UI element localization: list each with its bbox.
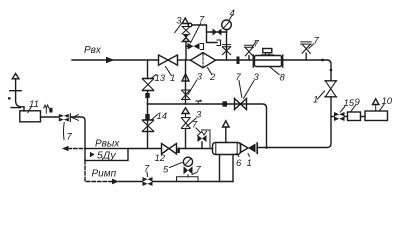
wire connector between 9 and 10 (361, 116, 366, 118)
dashed outlet arrow (68, 148, 85, 150)
open triangle below on vent column (183, 38, 190, 42)
valve 7 with handle above main line (after meter) (301, 42, 312, 44)
svg-text:7: 7 (314, 36, 320, 47)
svg-text:3: 3 (176, 16, 182, 27)
device 11 box (20, 111, 41, 122)
wire branch column below valve13 (147, 91, 149, 149)
valve 14 (vertical gate valve lower) (143, 120, 154, 132)
flange block before flow meter (237, 57, 240, 65)
impulse arrow (filled) (112, 179, 119, 185)
small mark left of stack (8, 97, 11, 99)
leader for label 7 line2 (239, 81, 242, 98)
svg-text:3: 3 (197, 72, 203, 83)
label 9 leader (351, 106, 356, 112)
left instrument stack vent triangle (12, 74, 19, 79)
svg-text:Римп: Римп (92, 169, 117, 180)
wire main line valve1-to-filter (178, 59, 191, 61)
node junction dot outlet/line2 (265, 146, 268, 149)
svg-text:1: 1 (247, 158, 252, 169)
svg-text:6: 6 (236, 158, 242, 169)
valve 15 (black) (334, 112, 345, 121)
leader for label 7 PSK (196, 128, 201, 133)
svg-text:7: 7 (144, 164, 150, 175)
wire right column continues (259, 97, 332, 148)
device 9 rectangle (348, 112, 361, 121)
svg-text:12: 12 (155, 153, 166, 164)
svg-text:5Ду: 5Ду (97, 150, 116, 162)
label 7 leader (after meter) (309, 44, 314, 49)
svg-text:15: 15 (344, 98, 355, 109)
node junction dot on main line near corner (321, 59, 323, 61)
svg-text:9: 9 (355, 97, 361, 108)
manometer 5 gauge (183, 157, 192, 166)
label 2 leader (208, 68, 212, 75)
svg-text:3: 3 (254, 72, 260, 83)
flow meter 8 body (255, 56, 282, 67)
svg-text:7: 7 (196, 165, 202, 176)
manometer 5 cock (black) (184, 166, 193, 174)
valve (manometer cock black) on line y=32 (213, 29, 222, 36)
regulator 6 vessel (213, 143, 241, 155)
wire instrument stack (16, 79, 24, 111)
wire vent column above main line at x=186 (185, 42, 187, 61)
valve on line2 (blowdown valve) (235, 99, 247, 110)
valve on line3 vent column (182, 118, 191, 129)
gauge stem (226, 30, 228, 32)
leader for label 3 (188, 80, 197, 95)
svg-text:10: 10 (382, 96, 393, 107)
device 10 rectangle (365, 111, 388, 121)
pressure gauge 4 (222, 20, 232, 30)
label 10 leader (379, 105, 384, 112)
wire main inlet line (72, 59, 159, 61)
label 6 leader (237, 154, 240, 157)
wire branch to KIP devices y=116.5 (331, 116, 334, 118)
flange bar after valve (69, 114, 71, 122)
label 1 leader (regulator valve) (248, 154, 250, 157)
arrow glyph in 5Du box (90, 152, 95, 157)
valve 7 (manometer cock, black) on bypass (188, 43, 200, 50)
valve 12 (162, 144, 177, 155)
wire line2 (blowdown header) (148, 104, 267, 148)
wire outlet line3 from valve12 to regulator (180, 148, 213, 150)
label 4 leader (230, 16, 232, 20)
svg-text:13: 13 (155, 73, 166, 84)
valve bowtie on lower vent column (182, 90, 191, 100)
label 12 leader (164, 150, 167, 153)
relief valve PSK with frame (202, 130, 211, 149)
wire vent column below main line x=185.5 (185, 60, 187, 104)
flow arrow (open, left) on device11 line (72, 115, 79, 121)
wire impulse risers to regulator (220, 155, 234, 182)
svg-text:1: 1 (313, 95, 318, 106)
label 7 leader (device11 valve) (62, 123, 65, 140)
leader for label 7 top (191, 24, 201, 44)
valve 13 (vertical gate valve on branch) (143, 79, 154, 91)
node junction dot on right column (330, 69, 333, 72)
flange tick upper (10, 90, 21, 92)
leader for label 3 line3 (187, 118, 197, 127)
wire vent column between valve12 and regulator x=185.5 (185, 129, 187, 149)
svg-text:3: 3 (196, 110, 202, 121)
valve 7 (black) on impulse line (143, 177, 153, 186)
dashed impulse line (85, 161, 112, 182)
svg-text:7: 7 (254, 39, 260, 50)
valve 1 (main inlet gate valve) (159, 55, 178, 65)
open triangle (vent) on lower column (182, 74, 189, 81)
impulse tap bracket under manometer (177, 177, 199, 181)
flow meter right cap (282, 55, 284, 67)
5Du box (85, 149, 128, 161)
flange block after valve 12 (177, 148, 180, 153)
regulator outlet valve (cock with hatched half) (241, 144, 249, 153)
flange block on column (lower) (145, 114, 149, 120)
label 14 leader (151, 115, 158, 121)
flow arrow on inlet line (106, 57, 115, 63)
label 5 leader (170, 163, 183, 168)
wire gauge column down to main line (226, 32, 228, 60)
flow meter top connector (263, 49, 272, 53)
sample tap mark on line2 (196, 101, 201, 104)
vent stack triangle (open, up) (182, 18, 188, 24)
node small circle right of vent stack (188, 23, 192, 27)
flow meter left cap (252, 55, 254, 67)
wire manometer line y=32 (207, 31, 227, 33)
flange tick lower (11, 107, 20, 109)
wire from circle to gauge impulse line (192, 25, 217, 43)
svg-text:4: 4 (230, 8, 235, 19)
gauge connection fitting right of cock (201, 44, 204, 50)
svg-text:Рвх: Рвх (84, 45, 102, 56)
svg-text:8: 8 (280, 73, 286, 84)
vent triangle on device 10 (373, 99, 379, 105)
wire line3 from box to valve12 (128, 148, 162, 150)
label 8 leader (270, 67, 279, 75)
wire main line filter-to-corner with rounded corner down (216, 60, 332, 81)
label 1 leader (riser) (318, 91, 325, 99)
label 11 leader (28, 108, 31, 113)
wire impulse line solid (119, 181, 233, 183)
wire branch column at x=147.5 upper segment (147, 60, 149, 79)
flange block on column (upper) (145, 93, 149, 98)
valve (vent) bowtie on upper column (182, 27, 190, 35)
wire device11 line (41, 117, 86, 149)
label 1 leader (166, 67, 172, 76)
svg-text:7: 7 (236, 72, 242, 83)
svg-text:14: 14 (157, 111, 168, 122)
label 13 leader (151, 75, 156, 79)
valve 7 with handle above main line (before meter) (245, 45, 254, 47)
filter F2 (diamond with dashed element) (191, 53, 216, 68)
svg-text:2: 2 (209, 72, 216, 83)
svg-text:1: 1 (170, 73, 175, 84)
label 7 leader (before meter) (253, 42, 257, 47)
thermometer symbol on line (44, 105, 49, 108)
svg-text:5: 5 (163, 165, 169, 176)
label 15 leader (340, 107, 345, 113)
label 7 leader (manometer cock) (192, 173, 197, 175)
vent triangle line3 column (182, 108, 189, 114)
leader for label 3 line2 (244, 81, 255, 99)
valve with T-handle on gauge column (223, 45, 231, 47)
svg-text:7: 7 (67, 132, 73, 143)
svg-text:11: 11 (29, 99, 39, 110)
filled flow triangle on vent column (183, 34, 190, 38)
label 7 leader (impulse valve) (146, 172, 149, 177)
vent stack on regulator (225, 127, 227, 143)
valve (black) on device11 line (59, 114, 69, 122)
gauge connection fitting (bracket) on impulse line (217, 40, 221, 46)
valve 1 (outlet riser gate valve, vertical) (325, 81, 337, 97)
flange block on line2 (223, 101, 228, 106)
leader stroke for label 3 top (175, 24, 182, 33)
